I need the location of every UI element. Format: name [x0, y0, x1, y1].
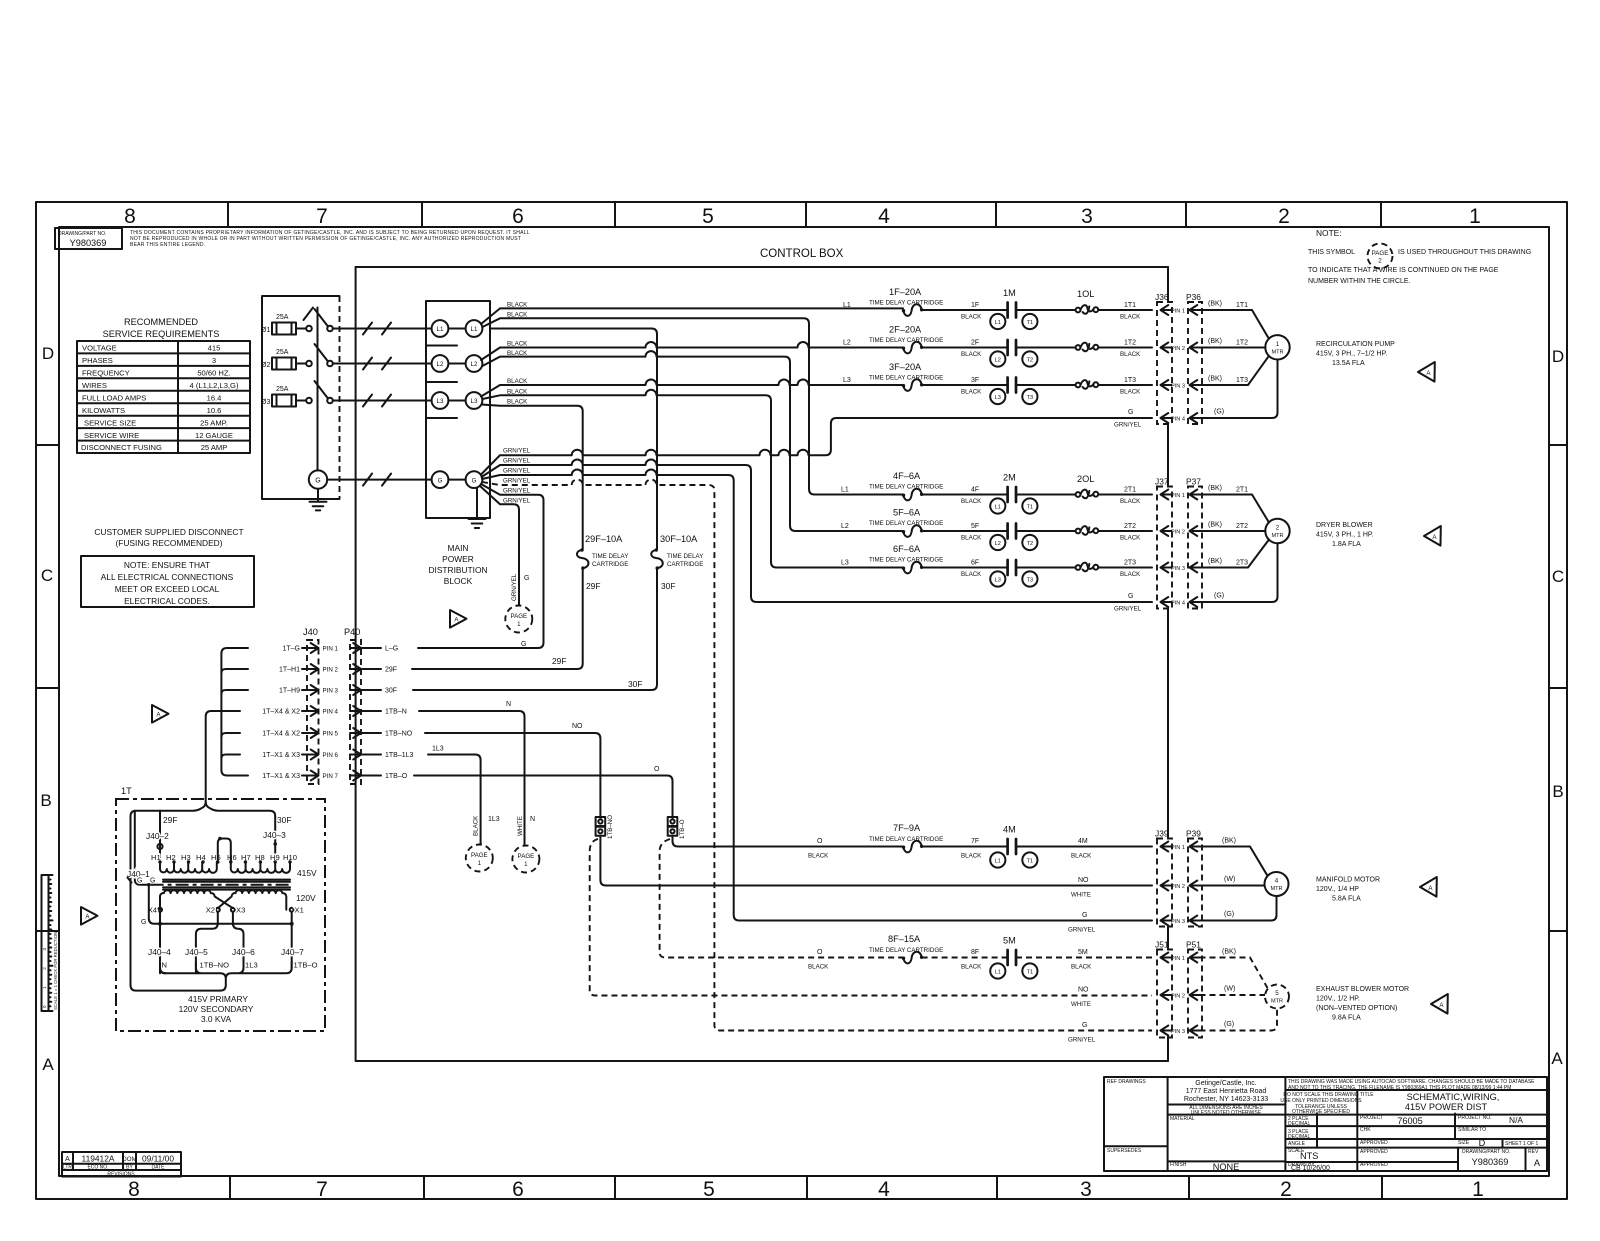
svg-text:NUMBER WITHIN THE CIRCLE.: NUMBER WITHIN THE CIRCLE. [1308, 278, 1411, 285]
wire L3 disconnect to block [333, 395, 432, 407]
svg-text:1: 1 [1472, 1178, 1484, 1201]
bus stub row3 [221, 690, 248, 694]
svg-text:4 (L1,L2,L3,G): 4 (L1,L2,L3,G) [190, 381, 239, 390]
svg-text:25A: 25A [276, 386, 289, 393]
svg-text:415V: 415V [297, 868, 317, 878]
svg-text:7F: 7F [971, 838, 979, 845]
svg-text:(FUSING RECOMMENDED): (FUSING RECOMMENDED) [115, 538, 222, 548]
block terminal L3 pair [432, 392, 483, 409]
svg-text:MAIN: MAIN [448, 543, 469, 553]
junction dot core ground [147, 883, 151, 887]
svg-text:16.4: 16.4 [207, 393, 222, 402]
wire P36 pin3 to motor [1200, 356, 1269, 385]
svg-text:2T3: 2T3 [1124, 560, 1136, 567]
contact terminal circle L1 [990, 852, 1005, 867]
svg-text:PIN 2: PIN 2 [1171, 884, 1185, 890]
svg-text:FINISH: FINISH [1170, 1162, 1187, 1168]
svg-text:1TB–1L3: 1TB–1L3 [385, 752, 414, 759]
svg-text:BLACK: BLACK [507, 302, 528, 309]
svg-text:1T3: 1T3 [1124, 377, 1136, 384]
primary winding coil H6-H10 [231, 862, 290, 873]
svg-text:3: 3 [1081, 205, 1093, 228]
svg-text:PROJECT NO.: PROJECT NO. [1458, 1115, 1492, 1121]
svg-text:GRN/YEL: GRN/YEL [503, 488, 531, 495]
svg-text:L1: L1 [995, 320, 1001, 326]
svg-text:1TB–O: 1TB–O [294, 961, 318, 970]
svg-text:PIN 1: PIN 1 [1171, 308, 1185, 314]
svg-text:7: 7 [316, 1178, 328, 1201]
svg-text:(W): (W) [1224, 876, 1235, 883]
connector P40 shell (dashed) [350, 640, 361, 784]
svg-text:H4: H4 [196, 853, 206, 862]
svg-text:10.6: 10.6 [207, 406, 222, 415]
svg-text:1T–X4 & X2: 1T–X4 & X2 [262, 709, 300, 716]
wire P51 pin1 to motor (dashed) [1200, 958, 1268, 989]
wire overload to J36 pin3 [1098, 384, 1152, 386]
svg-text:(BK): (BK) [1208, 485, 1222, 492]
contact 2M pole 1 [1008, 487, 1016, 502]
contact terminal circle L3 [990, 389, 1005, 404]
svg-text:415: 415 [208, 344, 221, 353]
J51 pin 1 [1161, 953, 1172, 963]
svg-text:BLACK: BLACK [808, 964, 829, 971]
exhaust blower description [1316, 986, 1409, 1022]
svg-text:J36: J36 [1155, 292, 1169, 302]
wire overload to J36 pin2 [1098, 347, 1152, 349]
svg-text:29F: 29F [586, 581, 600, 591]
svg-text:BLACK: BLACK [961, 498, 982, 505]
svg-text:3: 3 [212, 356, 216, 365]
contact 1M pole 3 [1008, 378, 1016, 393]
contact 1M pole 1 [1008, 303, 1016, 318]
svg-text:J40–2: J40–2 [146, 831, 169, 841]
contact terminal circle T1 [1022, 963, 1037, 978]
disconnect enclosure box [262, 296, 340, 499]
wire L2 disconnect to block [333, 358, 432, 370]
wire overload to J37 pin2 [1098, 530, 1152, 532]
contact terminal circle L2 [990, 535, 1005, 550]
flag note A below block [450, 610, 467, 628]
svg-text:GRN/YEL: GRN/YEL [511, 573, 518, 601]
svg-text:WIRES: WIRES [82, 381, 107, 390]
svg-text:120V., 1/2 HP.: 120V., 1/2 HP. [1316, 996, 1360, 1003]
svg-text:9.8A FLA: 9.8A FLA [1332, 1015, 1361, 1022]
wire contact to overload [1016, 384, 1076, 386]
svg-text:WHITE: WHITE [1071, 892, 1091, 899]
svg-text:Ø1: Ø1 [261, 327, 270, 334]
zone tick dividers right side [1549, 445, 1567, 931]
core bars [151, 880, 292, 890]
page circle 1L3 [466, 845, 493, 872]
svg-text:PIN 7: PIN 7 [323, 773, 339, 780]
wire X2 drop to J40-5 [196, 912, 218, 974]
svg-text:1F–20A: 1F–20A [889, 287, 922, 297]
svg-text:25A: 25A [276, 314, 289, 321]
svg-text:WHITE: WHITE [1071, 1001, 1091, 1008]
svg-text:2: 2 [1278, 205, 1290, 228]
fuse 4F [902, 489, 924, 501]
wire P37 pin2 to motor [1200, 530, 1266, 532]
svg-text:25 AMP.: 25 AMP. [200, 418, 228, 427]
wire GRN/YEL 2 to J37 pin4 [482, 460, 1153, 603]
svg-text:CONTROL BOX: CONTROL BOX [760, 248, 844, 260]
wire L2 feed to 5F row (drops at x=790) [482, 351, 903, 531]
bus stub row2 [221, 669, 248, 673]
svg-text:BLOCK: BLOCK [444, 576, 473, 586]
svg-text:N: N [530, 816, 535, 823]
svg-text:C: C [41, 566, 53, 585]
svg-text:MTR: MTR [1271, 350, 1283, 356]
svg-text:4M: 4M [1003, 825, 1016, 835]
svg-text:NO: NO [572, 723, 583, 730]
flag note A left of transformer [81, 907, 98, 925]
svg-text:TIME DELAY CARTRIDGE: TIME DELAY CARTRIDGE [869, 484, 943, 491]
svg-text:L3: L3 [843, 377, 851, 384]
fuse 8F [902, 952, 924, 964]
svg-text:T2: T2 [1027, 357, 1034, 363]
wire fuse 3F to contact [922, 384, 1008, 386]
dryer blower description [1316, 522, 1374, 548]
contact 4M [1008, 839, 1016, 854]
bus stub row6 [221, 755, 240, 759]
svg-text:Ø3: Ø3 [261, 399, 270, 406]
svg-text:(BK): (BK) [1208, 301, 1222, 308]
terminal J40-2 open circle [157, 844, 162, 849]
svg-text:1M: 1M [1003, 288, 1016, 298]
svg-text:DRAWING/PART NO.: DRAWING/PART NO. [1462, 1149, 1510, 1155]
svg-text:BLACK: BLACK [961, 964, 982, 971]
29F fuse (vertical) [577, 534, 628, 591]
wire 30F tap to H9 [274, 816, 276, 862]
tick on J40-1 wire [128, 878, 132, 883]
svg-text:415V POWER DIST: 415V POWER DIST [1405, 1102, 1488, 1112]
svg-text:J40–3: J40–3 [263, 830, 286, 840]
disconnect linkage bar [317, 308, 319, 471]
svg-text:J51: J51 [1155, 940, 1169, 950]
svg-text:PIN 4: PIN 4 [323, 709, 339, 716]
svg-text:Y980369: Y980369 [70, 238, 107, 248]
svg-text:BLACK: BLACK [507, 350, 528, 357]
svg-text:J40–5: J40–5 [185, 947, 208, 957]
svg-text:NTS: NTS [1300, 1151, 1318, 1161]
wire contact to overload 2OL [1016, 494, 1076, 496]
svg-text:MTR: MTR [1271, 533, 1283, 539]
svg-text:PAGE: PAGE [1372, 250, 1389, 257]
svg-text:BLACK: BLACK [961, 853, 982, 860]
svg-text:CB 10/26/00: CB 10/26/00 [1291, 1165, 1330, 1172]
wire L1 feed to 30F fuse (drops at x=657) [490, 329, 657, 550]
svg-text:G: G [438, 477, 443, 484]
secondary winding coil X1 side [218, 890, 287, 909]
motor 5 MTR (dashed) [1265, 985, 1289, 1009]
wire P39 pin3 ground to motor frame [1200, 896, 1277, 921]
svg-text:D: D [1552, 347, 1564, 366]
svg-text:TIME DELAY CARTRIDGE: TIME DELAY CARTRIDGE [869, 337, 943, 344]
svg-text:5M: 5M [1003, 936, 1016, 946]
wire X3 drop to J40-6 [233, 912, 244, 968]
svg-text:PIN 3: PIN 3 [323, 688, 339, 695]
wire L2 phase feed to 2F row [481, 342, 903, 360]
svg-text:30F: 30F [661, 581, 675, 591]
J36 pin 2 [1161, 343, 1172, 353]
J37 pin 2 [1161, 526, 1172, 536]
svg-text:3.0 KVA: 3.0 KVA [201, 1014, 232, 1024]
svg-text:SERVICE SIZE: SERVICE SIZE [84, 418, 136, 427]
svg-text:25A: 25A [276, 349, 289, 356]
transformer boundary (dash-dot) [116, 799, 325, 1031]
svg-text:4F: 4F [971, 487, 979, 494]
svg-text:APPROVED: APPROVED [1360, 1162, 1388, 1168]
svg-text:G: G [141, 919, 146, 926]
svg-text:SERVICE WIRE: SERVICE WIRE [84, 431, 139, 440]
svg-text:B: B [1552, 782, 1563, 801]
wire G loop: top split, left side, bottom return [131, 799, 276, 991]
wire 1TB-O to terminal and 7F row [414, 776, 903, 847]
disconnect handle [304, 308, 314, 321]
motor 4 MTR [1265, 872, 1289, 896]
J36 pin 3 [1161, 380, 1172, 390]
secondary ground bus [149, 887, 292, 924]
svg-text:NOTE:: NOTE: [1316, 228, 1342, 238]
svg-text:L2: L2 [471, 361, 478, 368]
svg-text:L1: L1 [471, 326, 478, 333]
contact terminal circle L1 [990, 314, 1005, 329]
svg-text:DISTRIBUTION: DISTRIBUTION [428, 565, 487, 575]
svg-text:L1: L1 [437, 326, 444, 333]
overload 2OL pole 1 [1076, 490, 1099, 499]
J36 pin 1 [1161, 305, 1172, 315]
svg-text:L1: L1 [843, 302, 851, 309]
svg-text:A: A [1551, 1049, 1563, 1068]
svg-text:2T2: 2T2 [1124, 523, 1136, 530]
svg-text:L2: L2 [437, 361, 444, 368]
svg-text:(BK): (BK) [1208, 376, 1222, 383]
svg-text:L3: L3 [995, 577, 1001, 583]
svg-text:SHEET 1 OF 1: SHEET 1 OF 1 [1505, 1141, 1538, 1147]
svg-text:13.5A FLA: 13.5A FLA [1332, 360, 1365, 367]
svg-text:6: 6 [512, 1178, 524, 1201]
svg-text:A: A [1534, 1158, 1541, 1168]
svg-text:T1: T1 [1027, 969, 1034, 975]
svg-text:P40: P40 [344, 627, 360, 637]
zone letters left [40, 344, 54, 1074]
svg-text:4F–6A: 4F–6A [893, 471, 921, 481]
svg-text:2T1: 2T1 [1236, 487, 1248, 494]
svg-text:POWER: POWER [442, 554, 474, 564]
svg-text:BLACK: BLACK [1120, 389, 1141, 396]
svg-text:NO: NO [1078, 987, 1089, 994]
svg-text:GRN/YEL: GRN/YEL [1068, 1037, 1096, 1044]
svg-text:T3: T3 [1027, 577, 1034, 583]
wire overload to J36 pin1 [1098, 309, 1152, 311]
svg-text:8F: 8F [971, 949, 979, 956]
svg-text:IS USED THROUGHOUT THIS DR: IS USED THROUGHOUT THIS DRAWING [1398, 249, 1531, 256]
svg-text:ALL ELECTRICAL CONNECTIONS: ALL ELECTRICAL CONNECTIONS [101, 572, 234, 582]
svg-text:T2: T2 [1027, 541, 1034, 547]
horizontal dividers [1104, 1090, 1547, 1162]
svg-text:8F–15A: 8F–15A [888, 934, 921, 944]
wire L1 disconnect to block with field-wiring slashes [333, 323, 432, 335]
svg-text:BLACK: BLACK [507, 312, 528, 319]
wire contact to overload [1016, 347, 1076, 349]
wire fuse 4F to contact 2M [922, 494, 1008, 496]
J51 pin 3 [1161, 1026, 1172, 1036]
fuse 1F [902, 304, 924, 316]
svg-text:DATE: DATE [152, 1165, 166, 1171]
page circle N [512, 846, 539, 873]
svg-text:L1: L1 [841, 487, 849, 494]
flag note A near J40 [152, 705, 169, 723]
wire fuse 6F to contact [922, 567, 1008, 569]
fuse 2F [902, 342, 924, 354]
svg-text:DRYER BLOWER: DRYER BLOWER [1316, 522, 1373, 529]
wire fuse 5F to contact [922, 530, 1008, 532]
svg-text:1TB–NO: 1TB–NO [200, 961, 230, 970]
svg-text:PIN 1: PIN 1 [1171, 956, 1185, 962]
zone numbers top row [124, 205, 1481, 228]
svg-text:29F: 29F [385, 667, 397, 674]
contact 2M pole 3 [1008, 560, 1016, 575]
wire contact to overload [1016, 530, 1076, 532]
wire 1TB-1L3 to page circle [428, 755, 481, 845]
secondary winding coil X4 side [160, 890, 233, 909]
svg-text:PHASES: PHASES [82, 356, 113, 365]
contact terminal circle T3 [1022, 389, 1037, 404]
fuse F-phase3 25A [261, 386, 296, 407]
contact terminal circle T1 [1022, 314, 1037, 329]
svg-text:29F–10A: 29F–10A [585, 534, 623, 544]
svg-text:EXHAUST BLOWER MOTOR: EXHAUST BLOWER MOTOR [1316, 986, 1409, 993]
switch pole 2 [296, 344, 333, 366]
svg-text:415V, 3 PH., 1 HP.: 415V, 3 PH., 1 HP. [1316, 532, 1374, 539]
junction dot X1 bus [290, 922, 294, 926]
svg-text:PROJECT: PROJECT [1360, 1115, 1383, 1121]
svg-text:(G): (G) [1224, 1021, 1234, 1028]
svg-text:UNLESS NOTED OTHERWISE: UNLESS NOTED OTHERWISE [1191, 1110, 1262, 1116]
svg-text:MTR: MTR [1270, 886, 1282, 892]
fuse F-phase1 25A [261, 314, 296, 335]
svg-text:5.8A FLA: 5.8A FLA [1332, 896, 1361, 903]
svg-text:1T–H1: 1T–H1 [279, 667, 300, 674]
svg-text:120V SECONDARY: 120V SECONDARY [179, 1004, 254, 1014]
svg-text:5: 5 [703, 1178, 715, 1201]
J39 pin 3 [1161, 916, 1172, 926]
svg-text:MANIFOLD MOTOR: MANIFOLD MOTOR [1316, 877, 1380, 884]
wire row4 to transformer 1T [206, 711, 240, 799]
main power distribution block label [428, 543, 487, 586]
svg-text:J40: J40 [303, 627, 318, 637]
svg-text:REF DRAWINGS: REF DRAWINGS [1107, 1079, 1146, 1085]
wire GRN/YEL 6 to page circle [480, 486, 519, 606]
svg-text:G: G [521, 641, 526, 648]
svg-text:REV: REV [1528, 1149, 1539, 1155]
svg-text:GRN/YEL: GRN/YEL [503, 448, 531, 455]
wire 29F tap from top rail to H1 [159, 811, 161, 862]
svg-text:CHK: CHK [1360, 1127, 1371, 1133]
block terminal L2 pair [432, 355, 483, 372]
wire GRN/YEL 4 dashed to J51 pin3 [482, 480, 1152, 1031]
svg-text:1TB–O: 1TB–O [385, 773, 408, 780]
page symbol example in note [1368, 244, 1393, 269]
30F wire fuse to P40 pin3 [413, 568, 657, 690]
svg-text:PIN 5: PIN 5 [323, 731, 339, 738]
wire P36 pin2 to motor [1200, 347, 1266, 349]
svg-text:1T–X1 & X3: 1T–X1 & X3 [262, 773, 300, 780]
fuse 5F [902, 525, 924, 537]
fuse 6F [902, 562, 924, 574]
svg-text:TIME DELAY CARTRIDGE: TIME DELAY CARTRIDGE [869, 520, 943, 527]
svg-text:1T3: 1T3 [1236, 377, 1248, 384]
svg-text:NONE: NONE [1213, 1162, 1240, 1172]
J39 pin 2 [1161, 881, 1172, 891]
svg-text:BLACK: BLACK [961, 314, 982, 321]
svg-text:PIN 4: PIN 4 [1171, 600, 1185, 606]
svg-text:SCALE 1 = 1 CHECK FOR REDUCT: SCALE 1 = 1 CHECK FOR REDUCTION [53, 932, 58, 1010]
svg-text:WHITE: WHITE [517, 816, 524, 836]
svg-text:2: 2 [1276, 525, 1280, 532]
svg-text:TO INDICATE THAT A WIRE I: TO INDICATE THAT A WIRE IS CONTINUED ON … [1308, 267, 1499, 274]
wire L1 feed to 4F row (drops at x=809) [482, 318, 903, 494]
svg-text:PIN 1: PIN 1 [1171, 493, 1185, 499]
svg-text:X2: X2 [206, 906, 215, 915]
svg-text:THIS SYMBOL: THIS SYMBOL [1308, 249, 1355, 256]
svg-text:L1: L1 [995, 858, 1001, 864]
disconnect ground terminal G [309, 470, 327, 510]
svg-text:Ø2: Ø2 [261, 362, 270, 369]
wire GRN/YEL 1 to J36 pin4 [481, 418, 1152, 475]
svg-text:BLACK: BLACK [1120, 498, 1141, 505]
svg-text:NO: NO [1078, 877, 1089, 884]
svg-text:A: A [65, 1156, 70, 1163]
svg-text:BLACK: BLACK [507, 378, 528, 385]
svg-text:GRN/YEL: GRN/YEL [503, 458, 531, 465]
svg-text:PIN 6: PIN 6 [323, 752, 339, 759]
svg-text:DECIMAL: DECIMAL [1288, 1134, 1310, 1140]
block ground stem and symbol [469, 488, 486, 528]
wire P39 pin2 to motor [1200, 885, 1265, 887]
svg-text:1: 1 [1469, 205, 1481, 228]
J37 pin 4 [1161, 597, 1172, 607]
svg-text:SIZE: SIZE [1458, 1140, 1470, 1146]
contact terminal circle T1 [1022, 498, 1037, 513]
wire X1 drop to J40-7 [291, 912, 293, 968]
wire 1TB-NO to terminal and 4M NO row [425, 733, 1152, 886]
svg-text:TIME DELAY CARTRIDGE: TIME DELAY CARTRIDGE [869, 947, 943, 954]
svg-text:BLACK: BLACK [1120, 535, 1141, 542]
terminal block 1TB-O [668, 817, 678, 836]
terminal J40-3 dot [273, 842, 277, 846]
motor 1 MTR [1265, 335, 1289, 359]
svg-text:L2: L2 [995, 541, 1001, 547]
switch pole 3 [296, 381, 333, 403]
svg-text:N: N [162, 961, 167, 970]
block terminal G pair [432, 471, 483, 488]
svg-text:L3: L3 [995, 395, 1001, 401]
svg-text:L1: L1 [995, 504, 1001, 510]
svg-text:ECO NO.: ECO NO. [87, 1165, 108, 1171]
wire fuse 8F to contact 5M (dashed) [922, 957, 1008, 959]
svg-text:12 GAUGE: 12 GAUGE [195, 431, 233, 440]
overload 1OL pole 3 [1076, 380, 1099, 389]
svg-text:L3: L3 [841, 560, 849, 567]
svg-text:FULL LOAD AMPS: FULL LOAD AMPS [82, 393, 146, 402]
outer border frame [36, 202, 1567, 1199]
wire L3 feed to 6F row (drops at x=771) [482, 390, 903, 568]
svg-text:GRN/YEL: GRN/YEL [503, 468, 531, 475]
svg-text:O: O [817, 838, 823, 845]
svg-text:G: G [315, 478, 320, 485]
svg-text:FREQUENCY: FREQUENCY [82, 369, 130, 378]
